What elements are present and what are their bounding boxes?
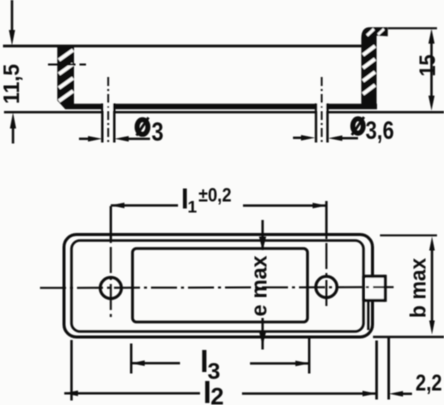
svg-text:e max: e max <box>247 255 272 317</box>
svg-text:2: 2 <box>211 384 224 405</box>
svg-text:b max: b max <box>406 257 431 318</box>
svg-text:11,5: 11,5 <box>0 64 24 104</box>
svg-text:15: 15 <box>415 55 440 77</box>
svg-text:3,6: 3,6 <box>366 117 395 145</box>
svg-text:3: 3 <box>152 117 164 147</box>
svg-text:2,2: 2,2 <box>416 370 443 396</box>
svg-text:1: 1 <box>188 198 197 217</box>
svg-text:±0,2: ±0,2 <box>199 186 232 207</box>
